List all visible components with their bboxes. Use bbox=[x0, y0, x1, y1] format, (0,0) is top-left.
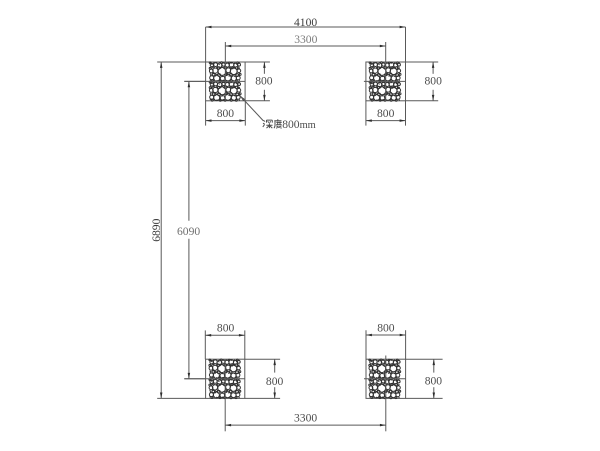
dim 6890 ext bottom bbox=[157, 397, 205, 399]
dim 800 right-BL arrows bbox=[273, 359, 276, 365]
svg-text:800: 800 bbox=[425, 75, 443, 88]
dim 6090 arrow top bbox=[188, 81, 191, 87]
dim 3300 bottom line bbox=[225, 424, 386, 426]
dim 3300 top arrow left bbox=[225, 45, 231, 48]
dim 800 above-BL arrows bbox=[205, 334, 211, 337]
dim 6890 ext top bbox=[157, 61, 205, 63]
centerline BR horizontal bbox=[364, 378, 406, 380]
svg-text:800: 800 bbox=[217, 107, 235, 120]
svg-text:4100: 4100 bbox=[294, 16, 317, 29]
dim 800 below-TR line bbox=[366, 120, 406, 122]
footing BR hatch lower bbox=[369, 379, 401, 399]
dim 6890 arrow bottom bbox=[160, 393, 163, 399]
centerline TL horizontal (6090 top extension) bbox=[184, 80, 245, 82]
dim 4100 arrow left bbox=[206, 26, 212, 29]
dim 6890 arrow top bbox=[160, 62, 163, 68]
centerline TR horizontal bbox=[364, 80, 406, 82]
svg-text:800: 800 bbox=[377, 107, 395, 120]
footing BR outline bbox=[366, 359, 406, 398]
svg-text:800: 800 bbox=[425, 374, 443, 387]
footing BR hatch upper bbox=[369, 359, 401, 379]
dim 6090 line upper bbox=[188, 81, 190, 220]
svg-text:800: 800 bbox=[377, 321, 395, 334]
dim 800 right-BL line bbox=[274, 359, 276, 372]
dim 800 right-BR arrows bbox=[433, 359, 436, 365]
dim 4100 ext left bbox=[205, 27, 207, 62]
footing BL hatch lower bbox=[209, 379, 241, 399]
footing TL hatch lower bbox=[209, 81, 241, 101]
dim 800 right-TR line bbox=[432, 62, 434, 74]
footing TR hatch upper bbox=[369, 62, 401, 82]
dim 800 right-TL ext bbox=[245, 61, 270, 63]
dim 800 below-TR ext bbox=[365, 101, 367, 126]
footing TL hatch upper bbox=[209, 62, 241, 82]
svg-text:6090: 6090 bbox=[177, 225, 200, 238]
footing BL outline bbox=[206, 359, 245, 398]
dim 800 below-TL arrows bbox=[206, 119, 212, 122]
dim 800 right-TR ext bbox=[406, 61, 439, 63]
dim 800 above-BL line bbox=[205, 334, 245, 336]
dim 4100 arrow right bbox=[400, 26, 406, 29]
footing TL outline bbox=[206, 62, 246, 101]
dim 800 below-TL line bbox=[206, 120, 246, 122]
dim 800 right-BL ext bbox=[245, 358, 280, 360]
centerline TL vertical bbox=[224, 42, 226, 101]
dim 800 right-TL line bbox=[263, 62, 265, 74]
dim 3300 bottom arrows bbox=[225, 424, 231, 427]
dim 800 right-BR line bbox=[433, 359, 435, 372]
dim 3300 top line bbox=[225, 45, 385, 47]
dim 6090 line lower bbox=[188, 239, 190, 379]
dim 800 above-BR line bbox=[366, 334, 406, 336]
svg-text:800: 800 bbox=[217, 322, 235, 335]
dim 800 right-TL arrows bbox=[263, 62, 266, 68]
dim 6890 line bbox=[160, 62, 162, 398]
svg-text:800: 800 bbox=[266, 375, 284, 388]
dim 6090 ext top bbox=[184, 80, 205, 82]
centerline BR vertical (3300 bottom extension) bbox=[385, 356, 387, 432]
svg-text:3300: 3300 bbox=[294, 411, 317, 424]
svg-text:3300: 3300 bbox=[294, 33, 317, 46]
svg-text:800: 800 bbox=[255, 75, 273, 88]
dim 800 right-TR arrows bbox=[432, 62, 435, 68]
dim 4100 line bbox=[206, 26, 406, 28]
leader line (depth callout) bbox=[240, 96, 264, 121]
footing BL hatch upper bbox=[209, 359, 241, 379]
svg-text:800mm: 800mm bbox=[282, 118, 316, 131]
dim 800 below-TL ext bbox=[205, 101, 207, 126]
leader arrow (depth callout) bbox=[240, 96, 245, 101]
dim 6090 arrow bottom bbox=[188, 373, 191, 379]
dim 800 right-BR ext bbox=[406, 358, 443, 360]
svg-text:6890: 6890 bbox=[150, 218, 163, 241]
dim 800 below-TR arrows bbox=[366, 119, 372, 122]
centerline BL horizontal (6090 bottom extension) bbox=[184, 378, 245, 380]
dim 3300 top arrow right bbox=[380, 45, 386, 48]
text 度 (depth char 2) bbox=[274, 119, 282, 128]
dim 800 above-BR arrows bbox=[366, 334, 372, 337]
centerline TR vertical bbox=[385, 42, 387, 101]
footing TR outline bbox=[366, 62, 406, 101]
footing TR hatch lower bbox=[369, 81, 401, 101]
dim 800 above-BL ext bbox=[204, 330, 206, 359]
dim 4100 ext right bbox=[405, 27, 407, 62]
dim 6090 ext bottom bbox=[184, 378, 205, 380]
centerline BL vertical (3300 bottom extension) bbox=[224, 359, 226, 431]
dim 800 above-BR ext bbox=[365, 330, 367, 359]
text 深 (depth char 1) bbox=[263, 120, 273, 128]
